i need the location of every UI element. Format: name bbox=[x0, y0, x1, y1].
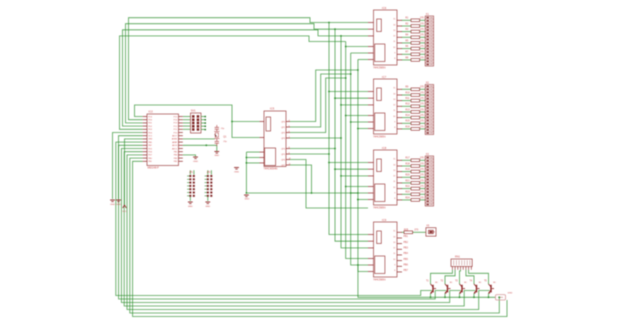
svg-text:8: 8 bbox=[394, 127, 395, 129]
svg-text:PC1: PC1 bbox=[174, 129, 178, 131]
svg-text:IC8: IC8 bbox=[382, 146, 387, 150]
svg-text:QP6: QP6 bbox=[281, 159, 285, 161]
svg-text:MEGA8-P: MEGA8-P bbox=[148, 166, 160, 169]
svg-text:12: 12 bbox=[393, 176, 395, 178]
svg-text:8: 8 bbox=[394, 58, 395, 60]
svg-text:GND: GND bbox=[244, 199, 249, 201]
svg-text:PB5: PB5 bbox=[404, 259, 409, 261]
svg-text:74HC595N: 74HC595N bbox=[373, 279, 386, 282]
svg-text:PB3: PB3 bbox=[174, 158, 178, 160]
svg-text:AGND: AGND bbox=[172, 138, 178, 141]
svg-text:R5: R5 bbox=[405, 40, 409, 42]
svg-text:X2: X2 bbox=[426, 81, 430, 84]
svg-text:8: 8 bbox=[394, 270, 395, 272]
svg-text:BC: BC bbox=[435, 282, 438, 284]
svg-text:7: 7 bbox=[289, 136, 290, 138]
svg-text:270: 270 bbox=[420, 57, 425, 59]
svg-text:74HC595N: 74HC595N bbox=[373, 67, 386, 70]
svg-text:22p: 22p bbox=[223, 141, 227, 143]
svg-text:6: 6 bbox=[289, 131, 290, 133]
svg-text:VCC: VCC bbox=[148, 136, 153, 138]
svg-text:R10: R10 bbox=[405, 92, 410, 94]
svg-text:10: 10 bbox=[393, 187, 395, 189]
svg-text:T2: T2 bbox=[441, 281, 444, 283]
svg-text:270: 270 bbox=[420, 29, 425, 31]
svg-text:PC2: PC2 bbox=[174, 126, 178, 128]
svg-text:PB5: PB5 bbox=[174, 152, 178, 154]
svg-text:12: 12 bbox=[393, 105, 395, 107]
svg-text:R18: R18 bbox=[405, 163, 410, 165]
svg-text:9: 9 bbox=[394, 122, 395, 124]
svg-text:22p: 22p bbox=[221, 128, 225, 130]
svg-text:R9: R9 bbox=[405, 87, 409, 89]
svg-text:PB4: PB4 bbox=[404, 253, 409, 255]
svg-text:Q1: Q1 bbox=[223, 137, 227, 139]
svg-text:GND: GND bbox=[508, 293, 513, 295]
svg-text:13: 13 bbox=[393, 242, 395, 244]
svg-text:PD5: PD5 bbox=[148, 148, 152, 150]
svg-text:T1: T1 bbox=[426, 281, 429, 283]
svg-text:11: 11 bbox=[289, 163, 291, 165]
svg-text:9: 9 bbox=[394, 193, 395, 195]
svg-text:270: 270 bbox=[420, 109, 425, 111]
svg-text:GND: GND bbox=[148, 139, 153, 141]
svg-text:74HC595N: 74HC595N bbox=[373, 207, 386, 210]
svg-text:SV1: SV1 bbox=[191, 110, 196, 113]
svg-text:R2: R2 bbox=[405, 23, 409, 25]
svg-text:12: 12 bbox=[393, 248, 395, 250]
svg-text:270: 270 bbox=[420, 35, 425, 37]
svg-text:PD4: PD4 bbox=[148, 132, 152, 134]
svg-text:PB2: PB2 bbox=[404, 242, 409, 244]
svg-text:R23: R23 bbox=[405, 192, 410, 194]
svg-text:9: 9 bbox=[394, 265, 395, 267]
svg-text:270: 270 bbox=[420, 115, 425, 117]
svg-text:R7: R7 bbox=[405, 52, 409, 54]
svg-text:GND: GND bbox=[193, 161, 198, 163]
svg-text:10: 10 bbox=[289, 158, 291, 160]
svg-text:IC6: IC6 bbox=[382, 6, 387, 10]
svg-text:270: 270 bbox=[420, 87, 425, 89]
svg-text:QP7: QP7 bbox=[281, 165, 285, 167]
svg-text:PB0: PB0 bbox=[148, 158, 152, 160]
svg-text:270: 270 bbox=[420, 121, 425, 123]
svg-text:AREF: AREF bbox=[172, 141, 178, 144]
svg-text:9: 9 bbox=[289, 152, 290, 154]
svg-text:PC5: PC5 bbox=[174, 116, 178, 118]
svg-text:PB1: PB1 bbox=[404, 236, 409, 238]
svg-text:R11: R11 bbox=[405, 98, 410, 100]
svg-text:IC7: IC7 bbox=[382, 75, 387, 79]
svg-text:X3: X3 bbox=[426, 153, 430, 156]
svg-text:74HC595N: 74HC595N bbox=[373, 136, 386, 139]
svg-text:270: 270 bbox=[420, 197, 425, 199]
svg-text:11: 11 bbox=[393, 110, 395, 112]
svg-text:PB7: PB7 bbox=[404, 270, 409, 272]
svg-text:PC0: PC0 bbox=[174, 132, 178, 134]
svg-text:270: 270 bbox=[420, 192, 425, 194]
svg-text:QP0: QP0 bbox=[281, 121, 285, 123]
svg-text:BC: BC bbox=[479, 282, 482, 284]
svg-text:IC9: IC9 bbox=[382, 218, 387, 222]
svg-text:GND: GND bbox=[205, 206, 210, 208]
svg-text:T4: T4 bbox=[470, 281, 473, 283]
svg-text:BC: BC bbox=[464, 282, 467, 284]
svg-text:R22: R22 bbox=[405, 186, 410, 188]
svg-text:GND: GND bbox=[116, 204, 121, 206]
svg-text:PB6: PB6 bbox=[148, 142, 152, 144]
svg-text:X1: X1 bbox=[426, 13, 430, 16]
svg-text:8: 8 bbox=[394, 198, 395, 200]
svg-text:QP3: QP3 bbox=[281, 138, 285, 140]
svg-text:PB7: PB7 bbox=[148, 145, 152, 147]
svg-text:270: 270 bbox=[420, 98, 425, 100]
svg-text:PD0: PD0 bbox=[148, 120, 152, 122]
svg-text:15: 15 bbox=[393, 88, 395, 90]
svg-text:270: 270 bbox=[420, 169, 425, 171]
svg-text:GND: GND bbox=[234, 172, 239, 174]
svg-text:270: 270 bbox=[420, 104, 425, 106]
svg-text:10: 10 bbox=[393, 259, 395, 261]
svg-text:270: 270 bbox=[420, 180, 425, 182]
svg-text:270: 270 bbox=[420, 52, 425, 54]
svg-text:IC5: IC5 bbox=[270, 107, 275, 111]
svg-text:QP1: QP1 bbox=[281, 127, 285, 129]
svg-text:PB1: PB1 bbox=[148, 161, 152, 163]
svg-text:270: 270 bbox=[420, 23, 425, 25]
svg-text:JP1: JP1 bbox=[189, 172, 194, 174]
svg-text:PD2: PD2 bbox=[148, 126, 152, 128]
svg-text:PC3: PC3 bbox=[174, 123, 178, 125]
svg-text:PD1: PD1 bbox=[148, 123, 152, 125]
svg-text:10: 10 bbox=[393, 47, 395, 49]
svg-text:8: 8 bbox=[289, 147, 290, 149]
svg-text:12: 12 bbox=[393, 36, 395, 38]
svg-text:BC: BC bbox=[493, 282, 496, 284]
svg-text:15: 15 bbox=[393, 19, 395, 21]
svg-text:IC2: IC2 bbox=[149, 110, 154, 114]
svg-text:R8: R8 bbox=[405, 57, 409, 59]
svg-text:9: 9 bbox=[394, 53, 395, 55]
svg-text:QP5: QP5 bbox=[281, 154, 285, 156]
svg-text:14: 14 bbox=[393, 236, 395, 238]
svg-text:11: 11 bbox=[393, 181, 395, 183]
svg-text:R3: R3 bbox=[405, 29, 409, 31]
svg-text:270: 270 bbox=[420, 186, 425, 188]
svg-text:RN1: RN1 bbox=[455, 256, 461, 259]
svg-text:GND: GND bbox=[110, 204, 115, 206]
svg-text:GND: GND bbox=[214, 155, 219, 157]
svg-text:BC: BC bbox=[450, 282, 453, 284]
svg-text:X5: X5 bbox=[426, 224, 430, 227]
svg-text:ADC6: ADC6 bbox=[172, 144, 177, 147]
svg-text:270: 270 bbox=[420, 92, 425, 94]
svg-text:R24: R24 bbox=[405, 197, 410, 199]
svg-text:R4: R4 bbox=[405, 35, 409, 37]
svg-text:JP2: JP2 bbox=[207, 172, 212, 174]
svg-text:270: 270 bbox=[420, 126, 425, 128]
svg-text:R12: R12 bbox=[405, 104, 410, 106]
svg-text:R17: R17 bbox=[405, 158, 410, 160]
svg-text:AVCC: AVCC bbox=[172, 147, 178, 150]
svg-text:270: 270 bbox=[420, 163, 425, 165]
svg-text:270: 270 bbox=[420, 40, 425, 42]
svg-text:R16: R16 bbox=[405, 126, 410, 128]
svg-text:QP2: QP2 bbox=[281, 132, 285, 134]
svg-text:13: 13 bbox=[393, 170, 395, 172]
svg-text:15: 15 bbox=[393, 231, 395, 233]
svg-text:R15: R15 bbox=[405, 121, 410, 123]
svg-text:5: 5 bbox=[289, 125, 290, 127]
svg-text:11: 11 bbox=[393, 41, 395, 43]
svg-text:GND: GND bbox=[188, 206, 193, 208]
svg-text:R13: R13 bbox=[405, 109, 410, 111]
svg-text:QP4: QP4 bbox=[281, 148, 285, 150]
svg-text:10: 10 bbox=[393, 116, 395, 118]
svg-text:14: 14 bbox=[393, 164, 395, 166]
svg-text:270: 270 bbox=[420, 175, 425, 177]
svg-text:270: 270 bbox=[420, 18, 425, 20]
svg-text:R1: R1 bbox=[405, 18, 409, 20]
svg-text:270: 270 bbox=[420, 46, 425, 48]
svg-text:VCC: VCC bbox=[122, 211, 127, 213]
svg-text:PD7: PD7 bbox=[148, 155, 152, 157]
svg-text:PD6: PD6 bbox=[148, 152, 152, 154]
svg-text:R25: R25 bbox=[404, 229, 409, 231]
svg-text:R20: R20 bbox=[405, 175, 410, 177]
svg-text:PC4: PC4 bbox=[174, 120, 178, 122]
svg-text:13: 13 bbox=[393, 30, 395, 32]
svg-text:270: 270 bbox=[414, 229, 419, 231]
svg-text:R14: R14 bbox=[405, 115, 410, 117]
svg-text:R6: R6 bbox=[405, 46, 409, 48]
svg-text:T3: T3 bbox=[455, 281, 458, 283]
svg-text:T5: T5 bbox=[484, 281, 487, 283]
svg-text:R21: R21 bbox=[405, 180, 410, 182]
svg-text:PB2: PB2 bbox=[174, 161, 178, 163]
svg-text:R19: R19 bbox=[405, 169, 410, 171]
svg-text:PD3: PD3 bbox=[148, 129, 152, 131]
svg-text:PB4: PB4 bbox=[174, 155, 178, 157]
svg-text:ADC7: ADC7 bbox=[172, 135, 177, 138]
svg-text:PC6: PC6 bbox=[148, 116, 152, 118]
svg-text:PB6: PB6 bbox=[404, 265, 409, 267]
svg-text:11: 11 bbox=[393, 253, 395, 255]
svg-text:14: 14 bbox=[393, 24, 395, 26]
svg-text:13: 13 bbox=[393, 99, 395, 101]
svg-text:74HC4094N: 74HC4094N bbox=[264, 168, 278, 171]
svg-text:15: 15 bbox=[393, 159, 395, 161]
svg-text:4: 4 bbox=[289, 120, 290, 122]
svg-text:PB3: PB3 bbox=[404, 248, 409, 250]
svg-text:14: 14 bbox=[393, 93, 395, 95]
svg-text:270: 270 bbox=[420, 158, 425, 160]
